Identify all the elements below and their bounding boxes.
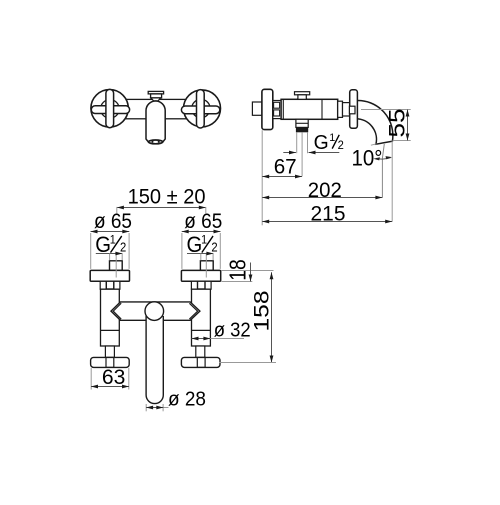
- G half leader: [283, 152, 296, 154]
- diverter knob plate: [148, 91, 163, 94]
- diverter knob stem: [151, 94, 162, 98]
- svg-text:55: 55: [385, 109, 410, 138]
- right flange: [181, 270, 220, 281]
- body end cap line: [282, 99, 284, 119]
- right column: [192, 289, 211, 346]
- G1/2 bottom right: [187, 232, 218, 257]
- SIDE VIEW: [252, 89, 392, 176]
- left cross vertical bar: [106, 89, 114, 127]
- threaded band: [296, 128, 308, 132]
- svg-text:1: 1: [329, 132, 335, 144]
- left handle inner circle: [101, 100, 120, 119]
- right handle outer circle: [184, 90, 221, 127]
- svg-text:ø 65: ø 65: [184, 210, 222, 233]
- BOTTOM VIEW DIMENSIONS: [91, 207, 277, 411]
- dim o28: [145, 404, 147, 411]
- left handle bar: [91, 357, 130, 367]
- dim 63: [90, 368, 92, 390]
- spout capsule: [146, 316, 163, 404]
- svg-text:202: 202: [308, 179, 342, 202]
- svg-text:63: 63: [102, 365, 126, 389]
- hexagon body: [111, 302, 200, 320]
- dim o65 right: [182, 231, 221, 233]
- bottom view texts: [94, 185, 274, 410]
- right cross vertical bar: [197, 90, 205, 128]
- dim o32: [192, 338, 245, 340]
- right handle inner circle: [192, 99, 210, 117]
- inlet pipe: [252, 102, 262, 115]
- dim 202: [262, 197, 382, 199]
- dim 55: [407, 110, 409, 141]
- diverter knob side: [295, 92, 310, 95]
- FRONT VIEW: [91, 89, 221, 143]
- dim 158: [271, 272, 273, 362]
- svg-text:ø 65: ø 65: [94, 210, 132, 233]
- svg-text:150 ± 20: 150 ± 20: [128, 185, 206, 208]
- right handle hub: [197, 357, 205, 367]
- dim 215: [262, 221, 392, 223]
- central circle: [145, 302, 164, 321]
- svg-text:67: 67: [274, 155, 297, 179]
- svg-text:215: 215: [311, 201, 346, 225]
- svg-text:1: 1: [110, 234, 116, 247]
- spout curved: [356, 101, 393, 145]
- handle adapter: [338, 101, 343, 117]
- G1/2 side: [314, 132, 344, 154]
- dim 67: [262, 176, 302, 178]
- centerlines: [115, 253, 117, 278]
- svg-text:G: G: [187, 232, 203, 257]
- right stem: [196, 346, 205, 358]
- left column: [101, 289, 120, 346]
- spout aerator dots: [152, 141, 154, 143]
- left inlet stub: [110, 261, 123, 271]
- svg-text:10°: 10°: [352, 145, 383, 170]
- G1/2 bottom left: [95, 232, 126, 257]
- left flange: [90, 270, 129, 281]
- svg-text:2: 2: [120, 240, 126, 255]
- left column joint: [101, 329, 120, 331]
- angle arc 10: [376, 158, 391, 160]
- left stem: [105, 346, 114, 358]
- connector block: [273, 101, 281, 119]
- svg-text:18: 18: [225, 259, 251, 281]
- spout body: [146, 101, 165, 142]
- down pipe joint line: [296, 122, 308, 124]
- handle hub: [349, 106, 355, 114]
- svg-text:G: G: [95, 232, 111, 257]
- svg-text:2: 2: [338, 140, 344, 152]
- handle bar edge-on: [350, 90, 358, 129]
- diverter knob flare: [151, 98, 161, 101]
- down pipe: [296, 119, 308, 127]
- svg-text:ø 32: ø 32: [214, 320, 251, 342]
- dim 150 +- 20: [117, 207, 206, 209]
- body divider line: [321, 99, 323, 119]
- side view texts: [274, 109, 410, 226]
- ext line 215: [391, 140, 393, 221]
- right inlet stub: [200, 261, 213, 271]
- left handle outer circle: [91, 90, 128, 127]
- left handle hub: [106, 357, 114, 367]
- svg-text:1: 1: [201, 234, 207, 247]
- left cross horizontal bar: [91, 106, 129, 114]
- left fitting row: [100, 281, 106, 289]
- outlet face extension: [371, 144, 377, 145]
- right cross horizontal bar: [181, 106, 219, 114]
- dim o65 left: [91, 231, 130, 233]
- G half leaders bottom: [96, 253, 123, 255]
- right fitting row: [191, 281, 197, 289]
- svg-text:ø 28: ø 28: [168, 389, 206, 411]
- ext line outlet 202 (10 deg wedge): [382, 144, 384, 198]
- wall plate: [262, 89, 273, 129]
- spout aerator ellipse: [149, 140, 163, 144]
- svg-text:2: 2: [211, 240, 217, 255]
- hose lines: [296, 132, 298, 153]
- BOTTOM VIEW: [90, 261, 221, 404]
- right handle bar: [181, 357, 220, 367]
- body bar: [109, 99, 202, 118]
- body cylinder: [281, 99, 338, 119]
- right column joint: [192, 329, 211, 331]
- ext lines 55: [361, 109, 411, 111]
- dim 18: [222, 270, 274, 272]
- SIDE VIEW DIMENSIONS: [262, 110, 411, 226]
- ext line wall: [261, 130, 263, 225]
- hexagon chamfer double lines: [113, 303, 121, 311]
- svg-text:158: 158: [250, 290, 274, 331]
- svg-text:G: G: [314, 132, 329, 154]
